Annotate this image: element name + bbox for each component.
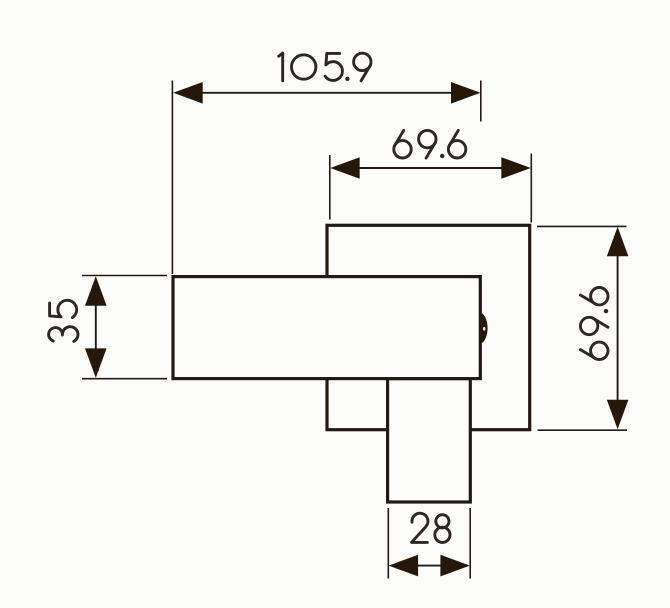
arrow left 28 [389,555,419,577]
dim line top 69.6 [333,167,528,169]
label top 69.6 [394,141,411,158]
spout body rectangle 105.9x35 [173,277,480,379]
ext line right of top 69.6 dim [530,154,532,223]
dim line 105.9 [176,92,478,94]
arrow left top 69.6 [330,157,360,179]
down pipe rectangle 28 wide [388,379,471,502]
ext line bottom of 35 dim [82,378,167,380]
arrow right 105.9 [451,82,481,104]
arrow left 105.9 [173,82,203,104]
arrow down 35 [85,348,107,378]
wall plate square 69.6x69.6 [327,225,530,429]
arrow up right 69.6 [607,227,629,256]
label 105.9 [279,53,283,81]
arrow up 35 [85,276,107,306]
ext line left of 28 dim [387,508,389,579]
label 35 rotated [49,300,78,341]
ext line top of 35 dim [82,275,167,277]
ext line bottom of right 69.6 dim [538,429,628,431]
arrow right top 69.6 [501,157,531,179]
ext line left of top 69.6 dim [329,155,331,220]
dim line 28 [392,565,467,567]
dim line right 69.6 [617,230,619,426]
arrow right 28 [440,555,470,577]
dim line 35 [95,280,97,374]
arrow down right 69.6 [607,400,629,430]
ext line left of 105.9 dim [171,81,173,275]
ext line top of right 69.6 dim [537,225,627,227]
label 28 [412,513,428,542]
knob detail on spout right end [480,313,487,344]
ext line right of 28 dim [469,508,471,579]
ext line right of 105.9 dim [480,81,482,122]
label right 69.6 rotated [580,288,608,360]
